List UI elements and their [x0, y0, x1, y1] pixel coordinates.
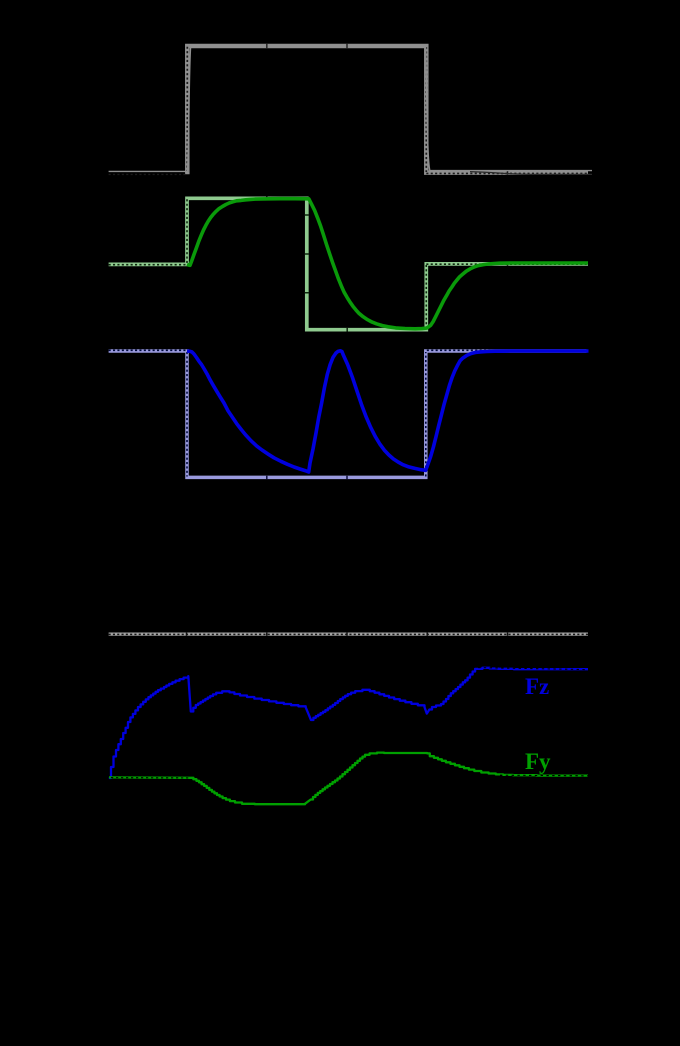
gray tick on right baseline [507, 171, 509, 175]
gray dashed overlay: vertical 1 [186, 46, 188, 172]
green tick on high band [266, 197, 268, 201]
green tick on low band [346, 328, 348, 332]
gray dashed overlay: left baseline (faint) [109, 173, 187, 175]
gray dashed overlay: vertical 2 [425, 47, 427, 172]
gray zero-reference dashed line [109, 632, 588, 635]
Fy force curve (green) [109, 753, 588, 805]
svg-text:Fz: Fz [525, 674, 549, 699]
green tick on right baseline [507, 262, 509, 266]
Fz dashed texture on settled tail [478, 668, 588, 670]
Fy dashed texture on flat head [111, 777, 191, 779]
Fz force curve (blue) [109, 668, 588, 778]
green y-axis ticks crossing vertical 2 [305, 215, 309, 293]
green dashed overlay: right baseline [426, 263, 588, 265]
green dashed overlay: vertical 3 [425, 265, 427, 329]
periwinkle command band [109, 351, 587, 477]
green dashed overlay: left baseline [109, 264, 187, 266]
blue dashed overlay: left high baseline [109, 349, 186, 351]
ticks on zero line [187, 633, 508, 636]
blue dashed overlay: vertical 1 [186, 352, 188, 477]
blue actual response curve [187, 351, 589, 472]
blue dashed overlay: right high baseline [427, 349, 587, 351]
thin gray actual trajectory [109, 45, 592, 172]
green command band [109, 198, 588, 329]
thin dark settling line (plot1 right) [470, 172, 592, 175]
Fy dashed texture on settled tail [500, 774, 588, 777]
green dashed overlay: vertical 1 [186, 199, 188, 263]
green actual response curve [187, 199, 588, 329]
svg-text:Fy: Fy [525, 749, 551, 774]
blue ticks on low band [267, 476, 347, 480]
gray command band (steps) [187, 46, 588, 174]
tick marks on top band [267, 44, 347, 49]
gray dashed overlay: right baseline [426, 172, 588, 174]
blue dashed overlay: vertical 2 [425, 352, 427, 477]
